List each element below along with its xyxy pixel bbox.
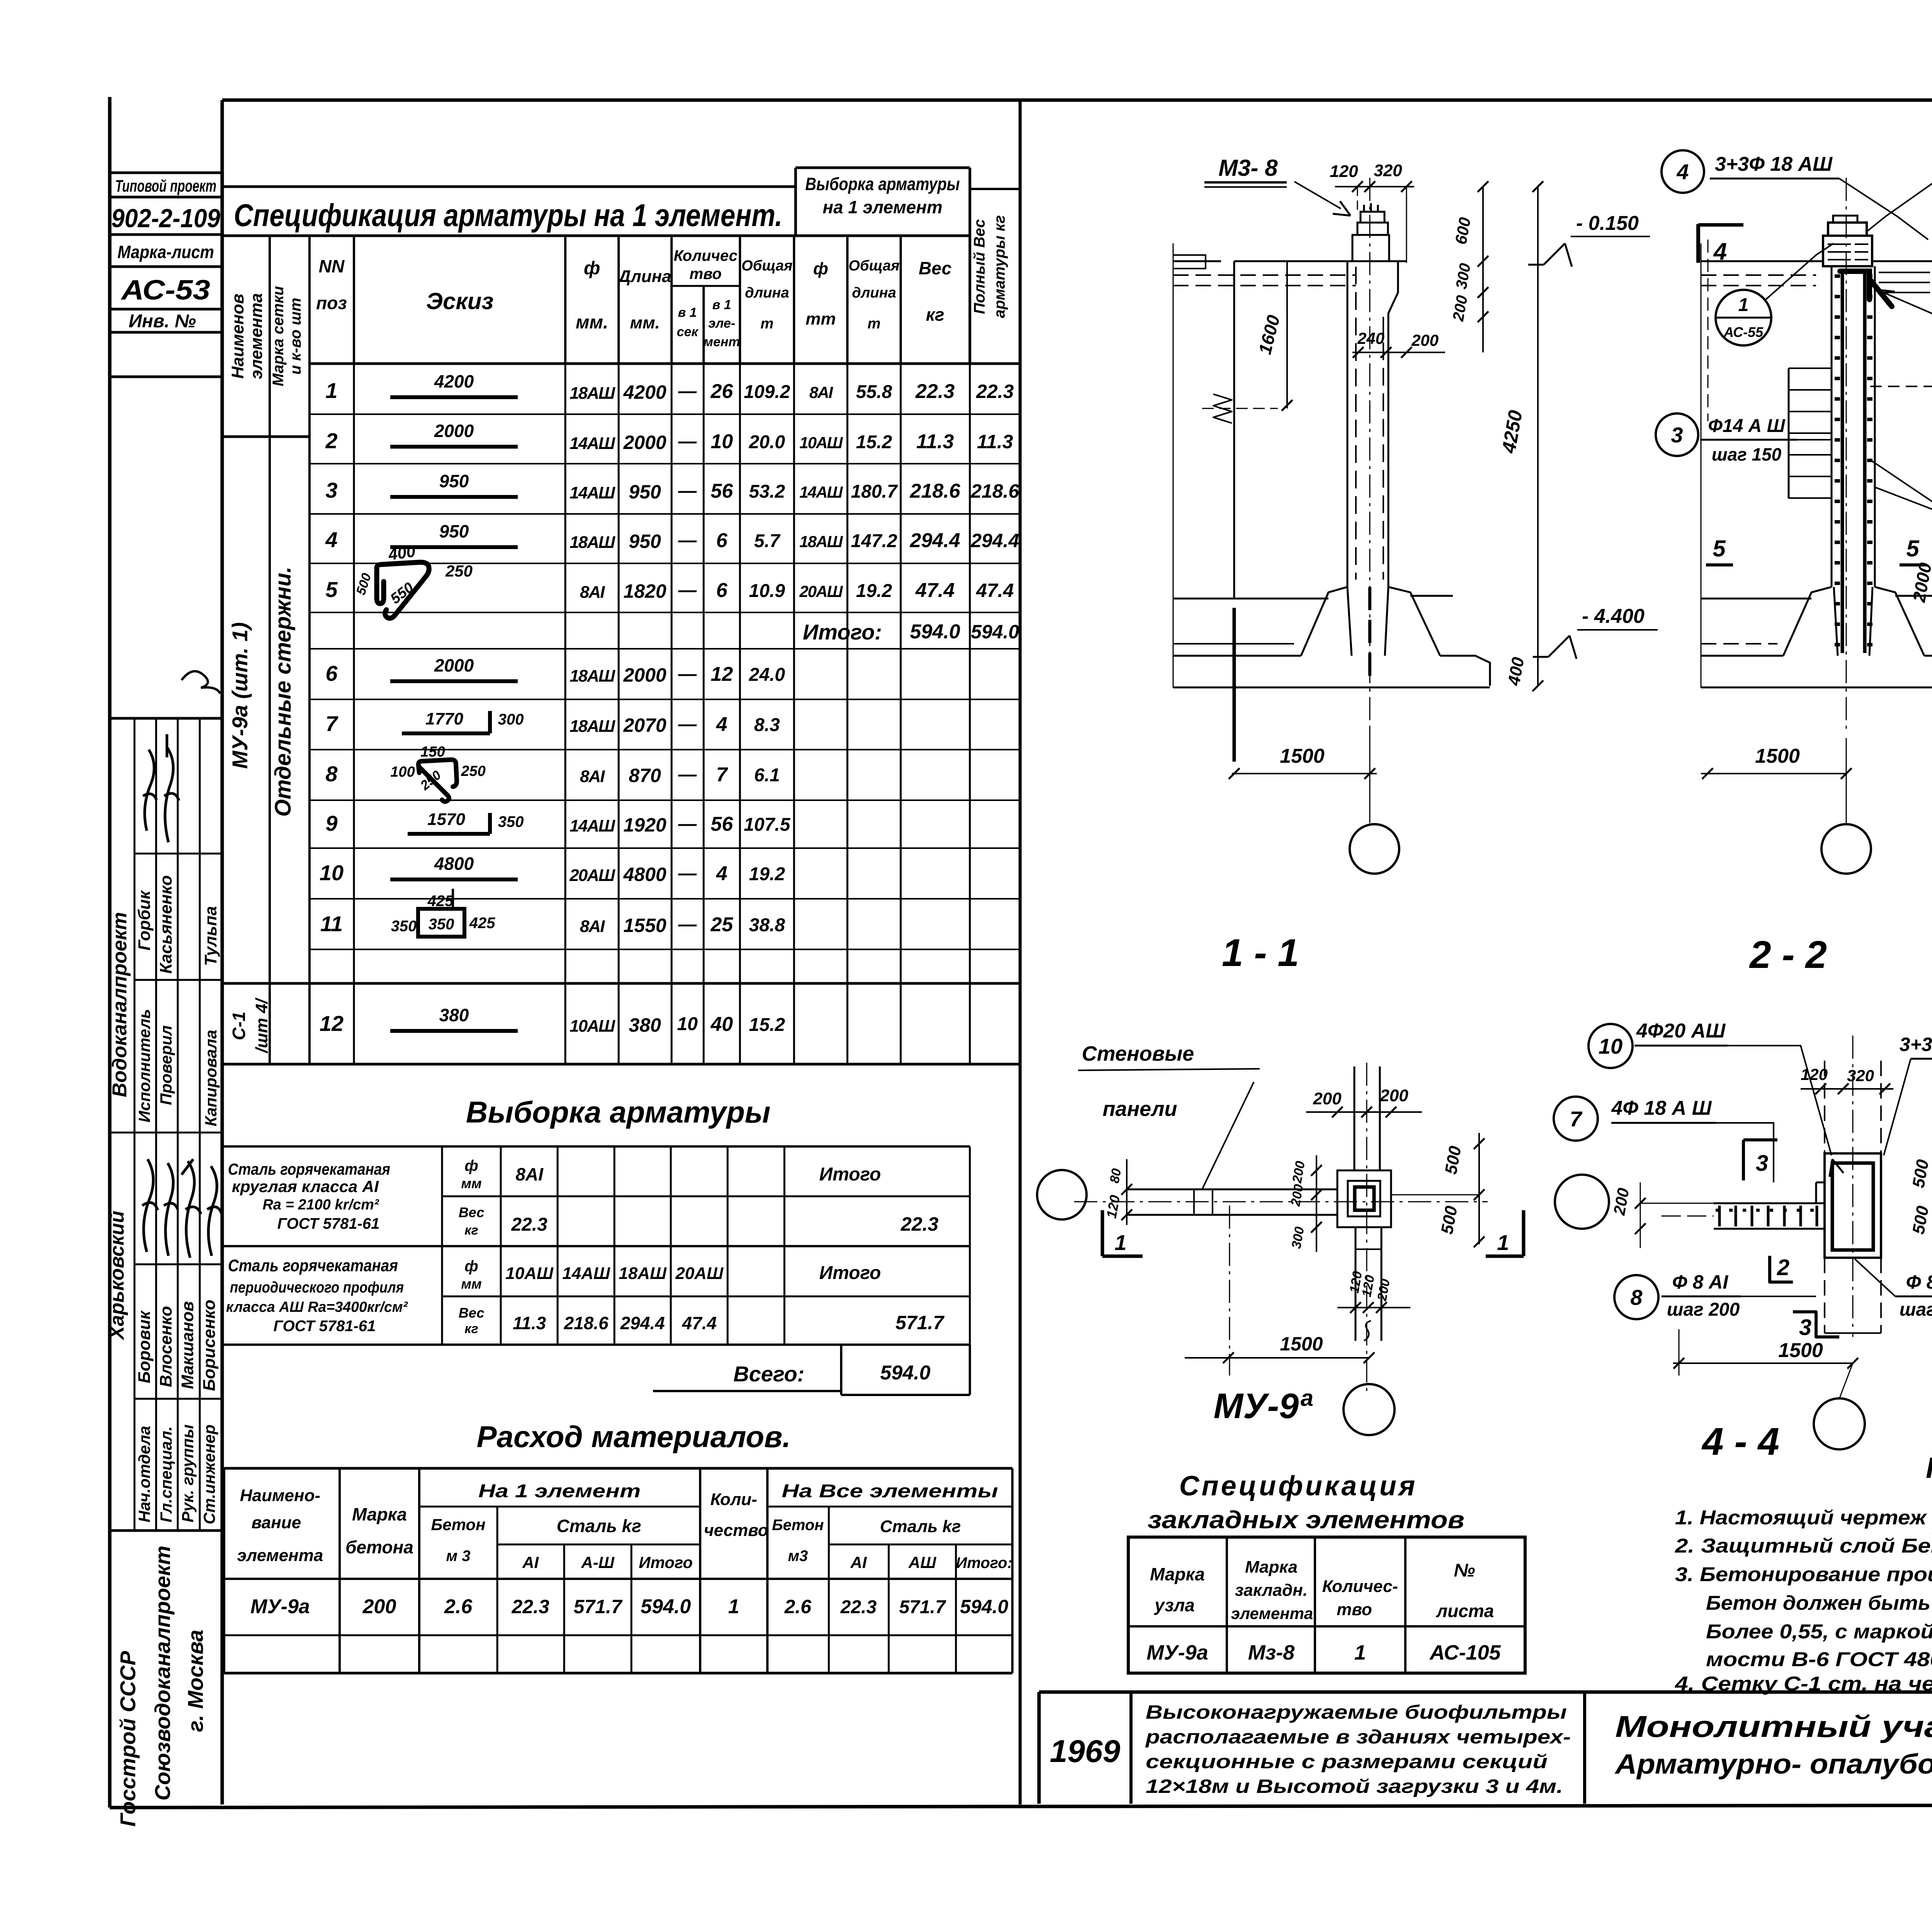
- svg-text:сек: сек: [677, 325, 699, 339]
- svg-text:1770: 1770: [425, 709, 463, 728]
- svg-text:мм.: мм.: [576, 312, 608, 333]
- svg-text:10АШ: 10АШ: [505, 1264, 554, 1283]
- svg-text:18АШ: 18АШ: [570, 667, 616, 685]
- svg-text:8АI: 8АI: [515, 1164, 544, 1184]
- svg-text:18АШ: 18АШ: [570, 384, 616, 403]
- svg-text:218.6: 218.6: [910, 480, 961, 502]
- svg-text:10АШ: 10АШ: [799, 434, 843, 452]
- svg-text:Наименов: Наименов: [228, 294, 247, 379]
- svg-text:8АI: 8АI: [580, 767, 605, 786]
- svg-text:Мз-8: Мз-8: [1248, 1641, 1295, 1664]
- svg-text:3: 3: [1756, 1151, 1768, 1176]
- svg-text:—: —: [678, 530, 697, 551]
- svg-text:и к-во шт: и к-во шт: [287, 298, 304, 375]
- svg-text:МУ-9ª: МУ-9ª: [1214, 1386, 1313, 1426]
- spec table: row grid: [310, 413, 1020, 415]
- svg-text:10: 10: [320, 861, 344, 885]
- svg-text:—: —: [678, 481, 697, 501]
- svg-text:ГОСТ 5781-61: ГОСТ 5781-61: [274, 1318, 376, 1335]
- svg-text:элемента: элемента: [247, 293, 266, 379]
- svg-text:бетона: бетона: [345, 1537, 413, 1557]
- svg-text:Длина: Длина: [617, 267, 671, 286]
- svg-text:Спецификация арматуры на 1 эле: Спецификация арматуры на 1 элемент.: [234, 198, 782, 233]
- svg-text:200: 200: [362, 1595, 396, 1618]
- svg-text:950: 950: [629, 481, 661, 503]
- svg-text:11: 11: [320, 912, 343, 936]
- svg-text:1570: 1570: [427, 810, 465, 829]
- svg-text:4800: 4800: [623, 864, 666, 885]
- svg-text:20АШ: 20АШ: [569, 866, 616, 885]
- svg-text:2.6: 2.6: [784, 1596, 812, 1617]
- svg-text:3. Бетонирование производи: 3. Бетонирование производить с тщательны…: [1675, 1563, 1932, 1586]
- svg-text:Бетон: Бетон: [431, 1515, 486, 1534]
- svg-text:АI: АI: [850, 1553, 867, 1571]
- svg-text:11.3: 11.3: [977, 431, 1013, 452]
- svg-text:950: 950: [629, 531, 661, 552]
- svg-text:4: 4: [716, 713, 728, 736]
- svg-text:6: 6: [716, 579, 728, 602]
- svg-text:12×18м и Высотой загрузки: 12×18м и Высотой загрузки 3 и 4м.: [1146, 1776, 1563, 1797]
- svg-text:NN: NN: [319, 256, 345, 276]
- svg-text:Рук. группы: Рук. группы: [179, 1424, 197, 1522]
- svg-text:10АШ: 10АШ: [570, 1017, 616, 1036]
- svg-text:Марка: Марка: [1245, 1558, 1298, 1577]
- svg-text:Итого:: Итого:: [956, 1554, 1012, 1571]
- svg-text:3+3Ф 18 АШ: 3+3Ф 18 АШ: [1715, 153, 1833, 175]
- svg-text:АС-55: АС-55: [1723, 324, 1764, 340]
- svg-text:1500: 1500: [1755, 745, 1800, 767]
- svg-text:вание: вание: [252, 1513, 301, 1532]
- svg-text:5.7: 5.7: [754, 531, 781, 551]
- svg-text:А-Ш: А-Ш: [581, 1553, 614, 1571]
- svg-text:располагаемые в зданиях четыр: располагаемые в зданиях четырех-: [1145, 1726, 1571, 1748]
- embedded parts table: [1128, 1537, 1525, 1673]
- 1-1 axis circle: [1350, 824, 1399, 874]
- svg-text:МУ-9а: МУ-9а: [250, 1595, 310, 1618]
- svg-text:Наимено-: Наимено-: [240, 1486, 320, 1505]
- svg-text:листа: листа: [1436, 1601, 1494, 1621]
- svg-text:56: 56: [711, 480, 733, 502]
- svg-text:2 - 2: 2 - 2: [1749, 933, 1827, 976]
- 4-4 mark 3 top: [1742, 1140, 1745, 1180]
- svg-text:Боровик: Боровик: [135, 1310, 154, 1383]
- svg-text:элемента: элемента: [1231, 1604, 1313, 1622]
- svg-text:арматуры кг: арматуры кг: [991, 215, 1008, 318]
- svg-text:Гл.специал.: Гл.специал.: [157, 1426, 175, 1522]
- svg-text:380: 380: [439, 1005, 469, 1025]
- svg-text:14АШ: 14АШ: [570, 483, 616, 502]
- svg-text:1: 1: [325, 378, 337, 403]
- svg-text:Коли-: Коли-: [710, 1490, 757, 1509]
- 1-1 base slab: [1173, 655, 1301, 657]
- svg-text:длина: длина: [745, 285, 789, 301]
- svg-text:mm: mm: [806, 310, 836, 328]
- svg-text:Монолитный участок МУ-9а: Монолитный участок МУ-9а.: [1615, 1709, 1932, 1743]
- svg-text:1: 1: [1114, 1230, 1126, 1255]
- svg-text:Горбик: Горбик: [135, 889, 154, 951]
- svg-text:Касьяненко: Касьяненко: [156, 875, 175, 974]
- svg-text:тво: тво: [1337, 1600, 1372, 1619]
- svg-text:- 4.400: - 4.400: [1582, 605, 1645, 628]
- svg-text:1550: 1550: [623, 915, 666, 936]
- 1-1 foundation top: [1173, 598, 1328, 600]
- svg-text:2000: 2000: [623, 432, 666, 453]
- svg-text:Марка: Марка: [1150, 1564, 1205, 1584]
- svg-text:Выборка арматуры: Выборка арматуры: [466, 1095, 770, 1129]
- 2-2 section mark 4 left: [1696, 224, 1700, 263]
- svg-text:8АI: 8АI: [580, 583, 605, 602]
- svg-text:На Все элементы: На Все элементы: [782, 1481, 998, 1502]
- steel summary table: [222, 1145, 970, 1148]
- spec table: header band: [222, 235, 970, 237]
- svg-text:8АI: 8АI: [809, 383, 833, 401]
- svg-text:14АШ: 14АШ: [799, 483, 843, 501]
- 2-2 callout 4: 3+3ф18 AIII: [1662, 150, 1704, 193]
- svg-text:10.9: 10.9: [749, 581, 785, 601]
- svg-text:Общая: Общая: [849, 258, 900, 274]
- svg-text:Бетон должен быть плотным: Бетон должен быть плотным, с водоцементн…: [1706, 1592, 1932, 1614]
- svg-text:294.4: 294.4: [970, 530, 1019, 551]
- sidebar signatures top: [143, 750, 156, 831]
- svg-text:Отдельные стержни.: Отдельные стержни.: [270, 566, 296, 816]
- svg-text:Количес: Количес: [673, 247, 737, 264]
- svg-text:5: 5: [325, 577, 338, 602]
- svg-text:шаг 200: шаг 200: [1667, 1299, 1740, 1320]
- 2-2 wall ladder left: [1788, 368, 1790, 498]
- svg-text:425: 425: [469, 915, 495, 932]
- svg-text:Бетон: Бетон: [772, 1517, 824, 1534]
- svg-text:—: —: [678, 664, 697, 684]
- svg-text:2000: 2000: [623, 664, 666, 686]
- 2-2 embed M3-8 at top: [1833, 216, 1857, 223]
- svg-text:Итого:: Итого:: [803, 620, 882, 644]
- svg-text:1500: 1500: [1778, 1339, 1823, 1362]
- svg-text:4: 4: [1676, 160, 1689, 184]
- svg-text:8: 8: [1630, 1285, 1643, 1310]
- svg-text:м3: м3: [788, 1548, 808, 1565]
- svg-text:14АШ: 14АШ: [570, 434, 616, 453]
- 2-2 rebar cage: [1841, 270, 1844, 653]
- svg-text:8: 8: [325, 762, 338, 786]
- svg-text:мости В-6 ГОСТ 4800-59.: мости В-6 ГОСТ 4800-59.: [1706, 1648, 1932, 1671]
- svg-text:594.0: 594.0: [971, 621, 1019, 643]
- 1-1 column head: [1352, 235, 1389, 261]
- svg-text:закладных элементов: закладных элементов: [1148, 1506, 1464, 1534]
- svg-text:АШ: АШ: [908, 1553, 936, 1571]
- svg-text:Вес: Вес: [919, 258, 952, 278]
- svg-text:—: —: [678, 814, 697, 834]
- svg-text:9: 9: [325, 811, 337, 835]
- svg-text:Нач.отдела: Нач.отдела: [135, 1426, 153, 1522]
- svg-text:12: 12: [711, 663, 733, 685]
- svg-text:Спецификация: Спецификация: [1179, 1471, 1418, 1502]
- svg-text:4Ф20 АШ: 4Ф20 АШ: [1636, 1020, 1726, 1042]
- svg-text:320: 320: [1847, 1066, 1874, 1085]
- 2-2 column outline: [1831, 266, 1833, 587]
- svg-text:узла: узла: [1154, 1595, 1195, 1615]
- svg-text:250: 250: [445, 562, 473, 580]
- svg-text:Итого: Итого: [819, 1263, 881, 1283]
- 4-4 callout 7: 4ф18 AIII: [1554, 1097, 1598, 1141]
- svg-text:350: 350: [498, 813, 524, 830]
- 1-1 wall edge: [1233, 261, 1235, 599]
- svg-text:870: 870: [629, 765, 661, 786]
- svg-text:шаг 150: шаг 150: [1712, 444, 1782, 464]
- svg-text:22.3: 22.3: [976, 381, 1014, 402]
- svg-text:Марка сетки: Марка сетки: [270, 286, 287, 386]
- sidebar stray signature: [182, 671, 220, 694]
- svg-text:1: 1: [1497, 1230, 1509, 1255]
- svg-text:—: —: [678, 381, 697, 401]
- svg-text:Высоконагружаемые биофильтры: Высоконагружаемые биофильтры: [1146, 1701, 1567, 1723]
- svg-text:47.4: 47.4: [976, 580, 1014, 601]
- svg-text:11.3: 11.3: [513, 1313, 546, 1333]
- 2-2 base slab: [1701, 655, 1783, 657]
- 1-1 column shaft: [1347, 261, 1349, 587]
- svg-text:10: 10: [711, 430, 733, 453]
- 4-4 marks 2: [1770, 1256, 1793, 1282]
- svg-text:7: 7: [1570, 1107, 1583, 1131]
- svg-text:22.3: 22.3: [840, 1597, 877, 1617]
- svg-text:Ф 8 АI: Ф 8 АI: [1672, 1271, 1729, 1293]
- svg-text:1: 1: [1354, 1641, 1366, 1664]
- svg-text:ф: ф: [464, 1258, 478, 1275]
- svg-text:класса АШ Ra=3400кr/см²: класса АШ Ra=3400кr/см²: [226, 1299, 408, 1315]
- svg-text:571.7: 571.7: [895, 1312, 944, 1333]
- svg-text:55.8: 55.8: [856, 382, 892, 402]
- svg-text:571.7: 571.7: [899, 1597, 946, 1617]
- svg-text:38.8: 38.8: [749, 915, 785, 935]
- svg-text:№: №: [1454, 1560, 1475, 1581]
- svg-text:шаг 200: шаг 200: [1900, 1299, 1932, 1320]
- svg-text:Количес-: Количес-: [1322, 1577, 1398, 1596]
- svg-text:эле-: эле-: [708, 316, 735, 331]
- svg-text:14АШ: 14АШ: [562, 1264, 611, 1283]
- svg-text:в 1: в 1: [713, 298, 731, 312]
- svg-text:Выборка арматуры: Выборка арматуры: [805, 174, 960, 194]
- svg-text:10: 10: [1599, 1034, 1622, 1058]
- svg-text:мм.: мм.: [630, 313, 660, 332]
- svg-text:Инв. №: Инв. №: [129, 311, 196, 332]
- svg-text:5: 5: [1713, 536, 1726, 561]
- svg-text:53.2: 53.2: [749, 481, 785, 502]
- svg-text:Водоканалпроект: Водоканалпроект: [109, 912, 131, 1097]
- svg-text:5: 5: [1906, 536, 1920, 561]
- svg-text:1500: 1500: [1280, 1333, 1323, 1355]
- svg-text:3+3Ф18 АШ: 3+3Ф18 АШ: [1900, 1034, 1932, 1055]
- svg-text:Харьковский: Харьковский: [106, 1211, 128, 1340]
- svg-text:1 - 1: 1 - 1: [1222, 931, 1299, 975]
- svg-text:147.2: 147.2: [851, 531, 897, 551]
- svg-text:4 - 4: 4 - 4: [1701, 1420, 1779, 1463]
- svg-text:Итого: Итого: [819, 1164, 881, 1185]
- svg-text:11.3: 11.3: [916, 430, 954, 453]
- plan wall vertical: [1354, 1066, 1355, 1170]
- svg-text:Исполнитель: Исполнитель: [135, 1009, 153, 1122]
- svg-text:Общая: Общая: [742, 258, 793, 274]
- svg-text:14АШ: 14АШ: [570, 816, 616, 835]
- 4-4 mark 3 bottom: [1793, 1312, 1839, 1337]
- svg-text:320: 320: [1374, 161, 1402, 180]
- svg-text:2.6: 2.6: [444, 1595, 473, 1618]
- 2-2 bent bar hook pos5: [1840, 271, 1892, 306]
- svg-text:109.2: 109.2: [744, 382, 790, 402]
- title block: [1039, 1690, 1932, 1694]
- svg-text:Сталь kг: Сталь kг: [556, 1516, 641, 1536]
- svg-text:1: 1: [1738, 295, 1749, 315]
- svg-text:Стеновые: Стеновые: [1082, 1042, 1194, 1065]
- svg-text:поз: поз: [316, 293, 347, 313]
- svg-text:С-1: С-1: [229, 1012, 249, 1040]
- svg-text:2. Защитный слой Бетона: 2. Защитный слой Бетона до рабочей армат…: [1675, 1535, 1932, 1557]
- plan axis circle bottom: [1344, 1384, 1395, 1435]
- svg-text:М3- 8: М3- 8: [1218, 155, 1278, 181]
- svg-text:Макшанов: Макшанов: [178, 1301, 197, 1389]
- svg-text:на 1 элемент: на 1 элемент: [823, 197, 942, 217]
- 2-2 foundation top: [1701, 598, 1811, 600]
- svg-text:АС-105: АС-105: [1429, 1641, 1501, 1664]
- svg-text:—: —: [678, 431, 697, 452]
- svg-text:26: 26: [710, 380, 733, 403]
- svg-text:25: 25: [710, 913, 733, 936]
- svg-text:294.4: 294.4: [910, 529, 960, 552]
- 1-1 bolt cap: [1361, 212, 1384, 223]
- svg-text:3: 3: [325, 478, 337, 502]
- svg-text:1920: 1920: [623, 814, 666, 836]
- svg-text:100: 100: [390, 764, 415, 780]
- svg-text:круглая класса АI: круглая класса АI: [232, 1177, 379, 1196]
- sheet frame: [108, 97, 112, 1808]
- svg-text:20АШ: 20АШ: [799, 582, 843, 600]
- svg-text:4: 4: [325, 527, 337, 552]
- svg-text:Сталь горячекатаная: Сталь горячекатаная: [228, 1160, 390, 1178]
- svg-text:Ст.инженер: Ст.инженер: [200, 1425, 218, 1524]
- svg-text:8.3: 8.3: [754, 715, 780, 735]
- svg-text:Марка: Марка: [352, 1504, 407, 1524]
- 4-4 column section: [1825, 1153, 1881, 1258]
- plan section mark 1 right: [1522, 1210, 1526, 1256]
- svg-text:мм: мм: [461, 1175, 481, 1191]
- svg-text:22.3: 22.3: [511, 1596, 549, 1617]
- 4-4 callout 10: 4ф20 AIII: [1588, 1024, 1633, 1068]
- svg-text:Эскиз: Эскиз: [426, 288, 493, 314]
- svg-text:Тульпа: Тульпа: [201, 906, 220, 966]
- svg-text:- 0.150: - 0.150: [1576, 212, 1639, 235]
- svg-text:ф: ф: [584, 258, 600, 279]
- svg-text:350: 350: [429, 916, 454, 933]
- svg-text:2000: 2000: [434, 421, 474, 441]
- svg-text:950: 950: [439, 471, 469, 491]
- svg-text:4200: 4200: [434, 371, 474, 391]
- svg-text:секционные с размерами секц: секционные с размерами секций: [1146, 1751, 1548, 1772]
- 4-4 beam: [1714, 1202, 1825, 1204]
- svg-text:18АШ: 18АШ: [619, 1264, 667, 1283]
- svg-text:Ф14 А Ш: Ф14 А Ш: [1708, 416, 1785, 436]
- svg-text:200: 200: [1313, 1089, 1342, 1108]
- 4-4 column dashes up: [1824, 1061, 1825, 1153]
- svg-text:350: 350: [391, 918, 417, 935]
- svg-text:2: 2: [1777, 1255, 1789, 1280]
- svg-text:Расход материалов.: Расход материалов.: [476, 1420, 791, 1454]
- svg-text:107.5: 107.5: [744, 815, 791, 835]
- materials table grid: [224, 1467, 1012, 1470]
- 1-1 console bracket: [1213, 394, 1232, 423]
- 2-2 axis circle: [1821, 824, 1871, 874]
- svg-text:950: 950: [439, 521, 469, 541]
- svg-text:7: 7: [716, 764, 728, 786]
- svg-text:120: 120: [1330, 162, 1358, 181]
- svg-text:56: 56: [711, 813, 733, 835]
- svg-text:элемента: элемента: [237, 1546, 323, 1565]
- svg-text:22.3: 22.3: [900, 1213, 939, 1235]
- svg-text:Полный Вес: Полный Вес: [971, 219, 988, 314]
- svg-text:ГОСТ 5781-61: ГОСТ 5781-61: [277, 1215, 380, 1232]
- svg-text:425: 425: [427, 893, 454, 910]
- 2-2 callout 3: ф14 AIII шаг150: [1656, 413, 1698, 456]
- svg-text:4Ф 18 А Ш: 4Ф 18 А Ш: [1611, 1097, 1712, 1119]
- spec table: title band: [222, 185, 796, 188]
- svg-text:10: 10: [677, 1014, 698, 1034]
- svg-text:40: 40: [710, 1013, 733, 1036]
- svg-text:Госстрой СССР: Госстрой СССР: [116, 1651, 140, 1827]
- svg-text:200: 200: [1411, 331, 1439, 349]
- plan axis circle left: [1037, 1170, 1087, 1219]
- svg-text:Влосенко: Влосенко: [156, 1306, 175, 1387]
- svg-text:кг: кг: [926, 304, 944, 325]
- 4-4 axis circles: [1555, 1175, 1609, 1229]
- sidebar signatures middle: [142, 1159, 158, 1252]
- svg-text:периодического профиля: периодического профиля: [230, 1279, 404, 1296]
- svg-text:7: 7: [325, 711, 338, 736]
- svg-text:18АШ: 18АШ: [799, 532, 843, 551]
- svg-text:19.2: 19.2: [749, 864, 785, 884]
- svg-text:Вес: Вес: [459, 1305, 484, 1321]
- svg-text:240: 240: [1357, 329, 1384, 347]
- svg-text:1820: 1820: [623, 580, 666, 602]
- svg-text:м 3: м 3: [446, 1548, 471, 1565]
- svg-text:длина: длина: [852, 285, 896, 301]
- svg-text:Примечания :: Примечания :: [1926, 1452, 1932, 1485]
- svg-text:218.6: 218.6: [563, 1313, 609, 1333]
- svg-text:594.0: 594.0: [910, 621, 960, 643]
- svg-text:Всего:: Всего:: [733, 1362, 804, 1386]
- svg-text:1: 1: [728, 1595, 740, 1618]
- svg-text:400: 400: [387, 542, 417, 563]
- 2-2 callout 1/AC-55: [1716, 290, 1771, 345]
- svg-text:МУ-9а: МУ-9а: [1146, 1641, 1208, 1664]
- svg-text:Проверил: Проверил: [157, 1025, 175, 1105]
- svg-text:Итого: Итого: [639, 1553, 693, 1571]
- svg-text:250: 250: [461, 763, 485, 779]
- svg-text:200: 200: [1379, 1086, 1408, 1105]
- svg-text:г. Москва: г. Москва: [183, 1630, 207, 1732]
- 1-1 foundation cup: [1301, 587, 1347, 656]
- svg-text:4800: 4800: [434, 854, 474, 874]
- svg-text:1500: 1500: [1280, 745, 1325, 767]
- svg-text:Союзводоканалпроект: Союзводоканалпроект: [150, 1546, 175, 1801]
- 1-1 top slab lines: [1234, 260, 1406, 262]
- svg-text:380: 380: [629, 1014, 661, 1036]
- svg-text:218.6: 218.6: [970, 480, 1019, 502]
- svg-text:22.3: 22.3: [915, 380, 954, 403]
- svg-text:Капировала: Капировала: [202, 1030, 220, 1126]
- sidebar column: [221, 100, 224, 1804]
- svg-text:/шт 4/: /шт 4/: [252, 997, 271, 1054]
- sidebar signature block grid: [110, 718, 222, 1531]
- svg-text:кг: кг: [464, 1321, 478, 1336]
- svg-text:закладн.: закладн.: [1235, 1581, 1308, 1600]
- svg-text:902-2-109: 902-2-109: [111, 204, 220, 233]
